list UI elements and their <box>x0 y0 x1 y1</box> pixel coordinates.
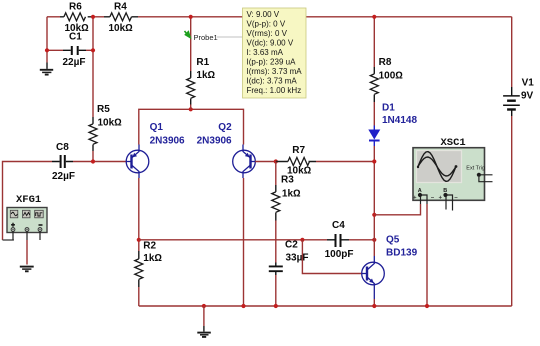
junction R7/R3 node <box>274 159 278 163</box>
resistor R2 <box>135 240 163 287</box>
wire XFG1 common to ground <box>26 240 28 265</box>
wire mid rail <box>139 239 374 241</box>
junction bottom / Q5 <box>372 304 376 308</box>
svg-text:R2: R2 <box>143 240 156 251</box>
wire V1 column <box>511 17 513 306</box>
capacitor C2 <box>269 240 309 276</box>
transistor Q5 <box>362 235 418 300</box>
transistor Q1 <box>126 122 185 178</box>
resistor R7 <box>276 145 316 177</box>
svg-text:V(dc): 9.00 V: V(dc): 9.00 V <box>247 39 294 48</box>
junction emitter rail / R1 <box>189 107 193 111</box>
svg-text:V1: V1 <box>522 78 535 89</box>
diode D1 <box>368 103 417 147</box>
capacitor C8 <box>52 142 75 182</box>
measurement box <box>243 8 307 98</box>
svg-text:Q2: Q2 <box>218 122 232 133</box>
svg-text:R5: R5 <box>97 104 110 115</box>
wire C8 to Q1 base node <box>73 161 126 163</box>
resistor R6 <box>60 2 93 35</box>
svg-text:R8: R8 <box>379 57 392 68</box>
wire emitter rail <box>139 109 244 144</box>
wire top supply rail <box>47 16 512 18</box>
wire Q2 collector <box>243 178 245 306</box>
svg-text:2N3906: 2N3906 <box>150 136 185 147</box>
svg-text:D1: D1 <box>382 103 395 114</box>
resistor R8 <box>370 57 403 102</box>
resistor R1 <box>187 57 216 105</box>
svg-text:C1: C1 <box>69 32 82 43</box>
wire R8 to D1 <box>373 102 375 126</box>
capacitor C4 <box>325 220 354 260</box>
wire Q5 base <box>302 240 362 274</box>
svg-text:R6: R6 <box>69 2 82 13</box>
svg-text:22µF: 22µF <box>63 57 86 68</box>
svg-text:9V: 9V <box>521 91 534 102</box>
ground top-left <box>40 50 53 74</box>
svg-text:Q5: Q5 <box>386 235 400 246</box>
svg-text:I(p-p): 239 uA: I(p-p): 239 uA <box>247 57 297 66</box>
svg-text:R7: R7 <box>292 145 305 156</box>
function generator XFG1 <box>7 194 47 240</box>
junction top rail / R8 <box>372 15 376 19</box>
resistor R4 <box>104 2 138 35</box>
junction top rail / C1 column <box>91 15 95 19</box>
svg-text:V(p-p): 0 V: V(p-p): 0 V <box>247 20 286 29</box>
wire D1 to Q5 collector <box>373 146 375 256</box>
resistor R3 <box>272 175 301 221</box>
wire Q1 collector to R2 <box>138 178 140 251</box>
wire R3 column <box>275 162 277 263</box>
svg-text:Probe1: Probe1 <box>194 33 218 42</box>
resistor R5 <box>89 104 122 151</box>
svg-text:BD139: BD139 <box>386 248 418 259</box>
junction scope A tap <box>372 213 376 217</box>
junction bottom / scope <box>425 304 429 308</box>
battery V1 <box>503 78 534 117</box>
svg-text:10kΩ: 10kΩ <box>98 118 123 129</box>
svg-text:I(dc): 3.73 mA: I(dc): 3.73 mA <box>247 76 298 85</box>
svg-text:22µF: 22µF <box>52 171 75 182</box>
junction bottom / Q2 <box>241 304 245 308</box>
svg-text:I: 3.63 mA: I: 3.63 mA <box>247 48 284 57</box>
svg-text:1kΩ: 1kΩ <box>196 70 215 81</box>
svg-text:Q1: Q1 <box>150 122 164 133</box>
ground XFG1 <box>20 267 34 272</box>
svg-text:R3: R3 <box>281 175 294 186</box>
svg-text:1kΩ: 1kΩ <box>143 253 162 264</box>
wire C2 bottom <box>275 275 277 306</box>
capacitor C1 <box>63 32 87 69</box>
svg-text:R1: R1 <box>196 57 209 68</box>
wire left branch to C1 <box>47 17 93 51</box>
svg-text:10kΩ: 10kΩ <box>109 23 134 34</box>
svg-text:Freq.: 1.00 kHz: Freq.: 1.00 kHz <box>247 86 302 95</box>
wire C1/R5 column <box>92 17 94 162</box>
svg-text:R4: R4 <box>114 2 127 13</box>
wire scope A minus to bottom rail <box>426 204 428 306</box>
junction bottom / C2 <box>274 304 278 308</box>
wire R8 column top <box>373 17 375 67</box>
wire Q5 emitter <box>373 299 375 306</box>
svg-text:Ext Trig: Ext Trig <box>466 165 485 171</box>
transistor Q2 <box>197 122 256 178</box>
wire XFG1 plus to C8 <box>3 162 53 241</box>
junction Q1 base node <box>91 159 95 163</box>
junction D1 / R7 <box>372 159 376 163</box>
svg-text:XFG1: XFG1 <box>16 194 41 206</box>
svg-text:V(rms): 0 V: V(rms): 0 V <box>247 29 288 38</box>
svg-text:C2: C2 <box>285 240 298 251</box>
probe Probe1 <box>184 30 242 42</box>
svg-text:C4: C4 <box>332 220 345 231</box>
junction mid rail / D1 column <box>372 238 376 242</box>
svg-text:33µF: 33µF <box>286 253 309 264</box>
svg-text:100pF: 100pF <box>325 249 354 260</box>
oscilloscope XSC1 <box>413 137 493 211</box>
junction top rail / R1 <box>189 15 193 19</box>
svg-text:C8: C8 <box>56 142 69 153</box>
wire R7 to D1 node <box>316 161 374 163</box>
junction bottom / ground <box>202 304 206 308</box>
svg-text:1N4148: 1N4148 <box>382 115 417 126</box>
svg-text:100Ω: 100Ω <box>379 71 404 82</box>
junction C1 left <box>45 48 49 52</box>
svg-text:1kΩ: 1kΩ <box>282 188 301 199</box>
junction mid rail / Q5 base tap <box>300 238 304 242</box>
junction R2 top <box>137 238 141 242</box>
svg-text:2N3906: 2N3906 <box>197 136 232 147</box>
junction C1 right <box>91 48 95 52</box>
svg-text:V: 9.00 V: V: 9.00 V <box>247 10 280 19</box>
svg-text:I(rms): 3.73 mA: I(rms): 3.73 mA <box>247 67 303 76</box>
wire scope A to node <box>374 204 420 215</box>
wire Q2 base to node <box>255 161 276 163</box>
wire bottom rail <box>139 305 512 307</box>
wire R1 column <box>190 17 192 110</box>
ground bottom <box>197 306 211 337</box>
wire R2 bottom <box>138 287 140 306</box>
